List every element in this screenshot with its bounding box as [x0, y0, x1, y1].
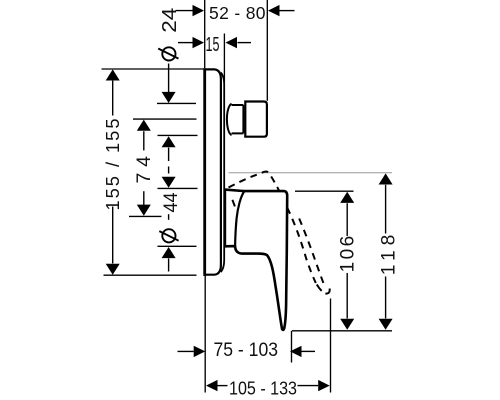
dimension 155/155 left	[112, 81, 114, 116]
svg-text:52 - 80: 52 - 80	[209, 3, 266, 23]
dashed lever position: left edge emerging right of solid lever	[287, 208, 316, 284]
svg-text:75 - 103: 75 - 103	[214, 340, 279, 361]
dimension &#216;24 leader	[168, 64, 170, 93]
svg-text:155 / 155: 155 / 155	[102, 119, 123, 211]
knob small cylinder	[232, 105, 244, 133]
dimension 44 line stub below label	[168, 214, 170, 220]
dashed lever position: top edge rising to apex then left edge down	[229, 172, 280, 192]
svg-text:15: 15	[206, 34, 220, 56]
dimension 106 right	[346, 203, 348, 236]
extension line L2	[157, 102, 196, 104]
lever handle silhouette solid	[225, 190, 287, 330]
svg-text:24: 24	[159, 8, 181, 33]
extension line lever-top (106 top)	[295, 190, 354, 192]
extension line L4	[158, 134, 198, 136]
svg-text:74: 74	[133, 156, 155, 184]
faceplate outer back edge	[221, 73, 224, 273]
extension line L1 plate top	[102, 68, 205, 70]
extension line V1 bottom (plate front to bottom dims)	[204, 276, 206, 393]
extension line lever tip (75-103 right)	[291, 331, 293, 363]
dimension 15 top	[178, 42, 193, 44]
dashed lever tip arc	[317, 285, 330, 294]
knob neck arc	[227, 104, 232, 135]
dimension 44 inner arrows between L4 and L5	[168, 148, 170, 161]
dimension 75-103 bottom	[178, 350, 194, 352]
extension line L6	[129, 215, 162, 217]
extension line V3 (plate back, 15 right)	[223, 34, 225, 83]
dimension 74	[143, 131, 145, 150]
dimension 105-133 bottom	[217, 385, 227, 387]
svg-text:44: 44	[160, 192, 182, 212]
extension line V1 top (plate front)	[204, 0, 206, 68]
svg-text:118: 118	[379, 235, 400, 276]
extension line L8 plate bottom	[104, 274, 197, 276]
dimension 118 right	[385, 185, 387, 234]
svg-text:105 - 133: 105 - 133	[229, 378, 297, 399]
faceplate outline top edge, inner right edge, bottom edge	[204, 69, 221, 274]
knob large cylinder	[245, 102, 267, 137]
dimension 44 lower outside arrow	[162, 247, 176, 258]
extension line L3	[133, 118, 197, 120]
extension line dashed-lever tip (105-133 right)	[330, 299, 332, 393]
extension line thin gray (118 top, dashed lever apex)	[229, 172, 393, 174]
diameter symbol of &#216;24	[162, 47, 175, 60]
faceplate front face	[203, 68, 206, 276]
extension line tips bottom (106/118 bottom)	[292, 330, 392, 332]
extension line L7	[158, 245, 197, 247]
dashed lever position: short edge over collar	[232, 200, 236, 211]
diameter symbol of &#216;44	[162, 229, 175, 242]
extension line L5	[158, 187, 198, 189]
dimension 52-80 top	[176, 10, 193, 12]
extension line V2 (knob end, 52-80 right)	[266, 0, 268, 101]
dashed lever position: right edge	[299, 219, 323, 284]
lever front face line	[235, 191, 244, 246]
svg-text:106: 106	[337, 236, 358, 273]
